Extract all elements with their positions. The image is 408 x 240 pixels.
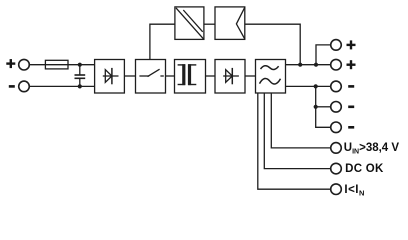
svg-text:UIN>38,4 V: UIN>38,4 V: [344, 142, 400, 155]
svg-text:I<IN: I<IN: [344, 184, 364, 197]
svg-text:DC OK: DC OK: [345, 163, 384, 175]
